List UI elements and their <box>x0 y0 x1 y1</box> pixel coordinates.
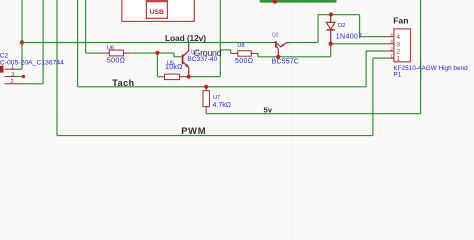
node junction Q3 collector <box>276 55 280 59</box>
wire U8 left from Ground vertical <box>220 50 230 54</box>
wire fan pin 2 row <box>366 50 385 52</box>
connector P1 fan header <box>385 29 410 62</box>
svg-text:PWM: PWM <box>181 125 206 136</box>
svg-text:Fan: Fan <box>393 16 408 26</box>
svg-text:4: 4 <box>396 34 400 41</box>
svg-text:U6: U6 <box>107 45 114 51</box>
USB connector box <box>146 0 167 18</box>
wire Tach riser to fan pin 2 <box>365 51 367 87</box>
wire vertical from top to resistor U6 <box>85 0 87 53</box>
wire vertical from top to DC jack pin 1 <box>21 0 23 69</box>
svg-text:4.7kΩ: 4.7kΩ <box>213 102 231 109</box>
wire node down to U5 <box>156 53 158 77</box>
svg-text:P1: P1 <box>393 71 401 78</box>
wire 5v riser to top edge <box>420 0 422 114</box>
wire U6 right to node <box>131 52 174 54</box>
svg-text:10kΩ: 10kΩ <box>165 64 183 71</box>
wire main 12v horizontal to Q3 base <box>22 42 274 44</box>
svg-text:3: 3 <box>396 41 400 48</box>
svg-text:D2: D2 <box>338 23 345 29</box>
wire vertical Ground net from top <box>219 0 221 77</box>
node end dot pin 3 <box>22 75 25 78</box>
wire Tach horizontal rail <box>78 86 367 88</box>
svg-text:Tach: Tach <box>112 78 134 88</box>
svg-text:BC557C: BC557C <box>272 58 300 65</box>
wire U8 right jog down <box>258 53 331 56</box>
USB connector top band (cut) <box>146 0 168 2</box>
svg-text:500Ω: 500Ω <box>107 58 125 65</box>
node junction 12v/pin1 <box>20 40 24 44</box>
node junction diode cathode <box>329 42 333 46</box>
wire fan pin 3 row from diode node <box>331 43 386 45</box>
node junction U6/U5/Q2 <box>155 51 159 55</box>
node junction U7 top on Tach <box>204 85 208 89</box>
svg-text:5v: 5v <box>264 106 273 115</box>
wire fan pin 1 row <box>373 57 386 59</box>
connector DC jack (partially cut) <box>0 66 26 84</box>
node junction on top wire <box>273 0 278 4</box>
wire Q3 emitter east <box>287 42 318 44</box>
wire riser to diode top <box>318 15 360 43</box>
svg-text:KF2510-4AGW High bend: KF2510-4AGW High bend <box>393 65 468 72</box>
wire down to fan pin 4 row <box>360 15 386 37</box>
wire vertical from top to PWM rail <box>56 0 58 136</box>
wire U6 left <box>86 52 102 54</box>
svg-text:500Ω: 500Ω <box>235 58 253 65</box>
svg-text:Q3: Q3 <box>272 33 279 39</box>
resistor U8 <box>231 51 258 56</box>
wire vertical from top to DC jack pin 2 <box>42 0 44 84</box>
resistor U6 <box>102 50 132 56</box>
wire DC jack pin 1 stub green <box>16 68 23 70</box>
svg-text:2: 2 <box>10 79 13 85</box>
wire riser to diode node <box>330 44 332 57</box>
wire DC jack pin 2 horizontal <box>26 83 43 85</box>
wire DC jack pin 3 stub green <box>16 76 24 78</box>
transistor Q3 BC557C <box>274 41 289 57</box>
svg-text:2: 2 <box>396 49 400 56</box>
wire top horizontal net (cut at top edge) <box>260 0 337 3</box>
node junction U5/Q2 emitter <box>187 75 191 79</box>
transistor Q2 BC337-40 <box>183 45 189 77</box>
svg-text:1N4007: 1N4007 <box>336 33 363 40</box>
wire U5 right to vertical <box>187 76 221 78</box>
svg-text:USB: USB <box>150 9 164 16</box>
resistor U5 <box>161 74 187 80</box>
svg-text:3: 3 <box>11 72 14 78</box>
wire PWM horizontal rail <box>57 135 373 137</box>
svg-text:DC-005-20A_C136744: DC-005-20A_C136744 <box>0 59 64 66</box>
wire vertical from top to Tach rail <box>77 0 79 87</box>
diode D2 1N4007 <box>326 15 335 44</box>
wire Q2 collector up to main wire <box>188 43 190 45</box>
svg-text:1: 1 <box>396 56 400 63</box>
resistor U7 <box>203 87 209 114</box>
svg-text:U7: U7 <box>213 95 220 101</box>
wire 5v riser over label <box>420 60 422 80</box>
wire PWM riser to fan pin 1 <box>372 58 374 136</box>
svg-text:Load (12v): Load (12v) <box>165 33 206 43</box>
wire U5 left <box>157 76 160 78</box>
MCU module outline (cut at top) <box>122 0 194 21</box>
svg-text:U8: U8 <box>237 43 244 49</box>
wire 5v horizontal rail <box>206 113 420 115</box>
svg-text:Ground: Ground <box>194 48 222 58</box>
node junction diode anode <box>329 13 333 17</box>
wire jog into Q2 base <box>174 53 183 57</box>
